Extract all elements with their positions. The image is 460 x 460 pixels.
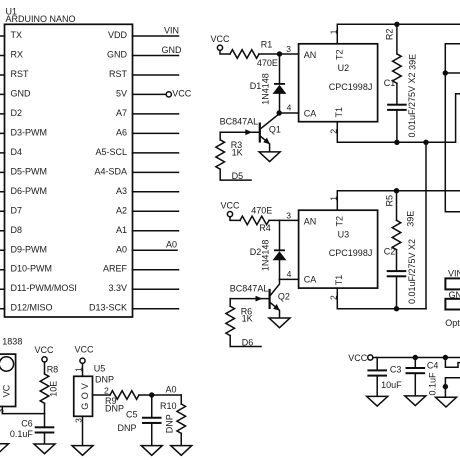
svg-text:T1: T1 xyxy=(334,107,344,118)
svg-text:V: V xyxy=(80,383,90,389)
svg-text:1838: 1838 xyxy=(2,337,22,347)
diode D1 1N4148 xyxy=(273,54,287,113)
svg-text:A4-SDA: A4-SDA xyxy=(94,166,127,176)
svg-text:1N4148: 1N4148 xyxy=(260,73,270,105)
transistor Q2 BC847AL xyxy=(230,279,280,318)
svg-text:3.3V: 3.3V xyxy=(108,283,127,293)
svg-text:VCC: VCC xyxy=(172,88,192,98)
svg-text:A0: A0 xyxy=(116,244,127,254)
svg-text:C4: C4 xyxy=(427,360,439,370)
node dot right edge xyxy=(443,70,448,75)
node dot right jumper xyxy=(443,355,448,360)
svg-text:R10: R10 xyxy=(160,401,177,411)
svg-text:T2: T2 xyxy=(335,216,345,227)
svg-text:D11-PWM/MOSI: D11-PWM/MOSI xyxy=(11,283,77,293)
svg-text:470E: 470E xyxy=(257,58,278,68)
svg-text:39E: 39E xyxy=(405,211,415,227)
svg-text:D10-PWM: D10-PWM xyxy=(11,264,53,274)
svg-text:C5: C5 xyxy=(126,410,138,420)
diode D2 1N4148 xyxy=(273,220,287,279)
svg-text:U5: U5 xyxy=(94,363,106,373)
connector U5 body xyxy=(74,376,93,416)
capacitor C1 xyxy=(387,104,407,143)
svg-text:A1: A1 xyxy=(116,225,127,235)
U3 pin 1 wire (T2) xyxy=(337,191,460,211)
svg-text:A7: A7 xyxy=(116,108,127,118)
svg-text:D7: D7 xyxy=(11,205,23,215)
ground below C5 xyxy=(141,446,162,456)
svg-text:A0: A0 xyxy=(166,240,177,250)
U2 pin 1 wire (T2) xyxy=(337,24,460,44)
Arduino Nano U1 body xyxy=(5,24,133,317)
svg-text:AREF: AREF xyxy=(103,264,128,274)
wire VCC to R4 xyxy=(230,217,240,221)
svg-text:1: 1 xyxy=(328,196,338,201)
U5 pin 2 wire xyxy=(93,394,111,396)
VCC symbol at U5 xyxy=(74,345,94,364)
svg-text:VIN: VIN xyxy=(164,25,179,35)
svg-text:10E: 10E xyxy=(49,381,59,397)
svg-text:VCC: VCC xyxy=(220,200,240,210)
svg-text:C3: C3 xyxy=(390,365,402,375)
node dot R5 top xyxy=(394,188,399,193)
right edge load wiring top xyxy=(445,44,460,212)
SSR U2 body xyxy=(299,44,378,122)
ground below C6 xyxy=(34,444,55,454)
VCC symbol bottom rail xyxy=(348,353,373,363)
resistor R5 xyxy=(392,191,401,270)
VCC symbol at R8 xyxy=(34,345,54,362)
svg-text:1K: 1K xyxy=(232,147,243,157)
svg-text:GND: GND xyxy=(162,45,183,55)
node dot mid rail branch xyxy=(423,140,428,145)
svg-text:ARDUINO NANO: ARDUINO NANO xyxy=(6,14,76,24)
wire shared neutral vertical xyxy=(425,142,427,308)
wire R9 to A0 xyxy=(139,394,181,396)
capacitor C6 xyxy=(35,414,55,444)
capacitor C2 xyxy=(387,270,407,309)
svg-text:BC847AL: BC847AL xyxy=(230,283,269,293)
svg-text:39E: 39E xyxy=(408,54,418,70)
svg-text:DNP: DNP xyxy=(118,423,137,433)
svg-text:3: 3 xyxy=(286,210,291,220)
svg-text:VCC: VCC xyxy=(348,353,368,363)
svg-text:D13-SCK: D13-SCK xyxy=(89,303,127,313)
svg-text:R4: R4 xyxy=(259,223,271,233)
node dot CA xyxy=(277,110,282,115)
node dot right gnd xyxy=(443,384,448,389)
svg-text:C1: C1 xyxy=(384,78,396,88)
svg-text:VCC: VCC xyxy=(34,345,54,355)
resistor R9 xyxy=(110,391,139,400)
svg-text:D6-PWM: D6-PWM xyxy=(11,186,48,196)
svg-text:DNP: DNP xyxy=(95,375,114,385)
svg-text:470E: 470E xyxy=(251,206,272,216)
VCC tap on 5V pin xyxy=(166,88,192,98)
svg-text:1K: 1K xyxy=(242,314,253,324)
svg-text:5V: 5V xyxy=(116,88,127,98)
U1 left pin names xyxy=(11,30,77,313)
svg-text:1N4148: 1N4148 xyxy=(260,240,270,272)
ground below Q1 xyxy=(259,152,280,162)
svg-text:AN: AN xyxy=(304,217,317,227)
capacitor C3 xyxy=(367,358,387,397)
svg-text:RX: RX xyxy=(11,50,24,60)
U5 pin 3 wire to ground xyxy=(82,416,84,445)
wire VCC to R1 xyxy=(220,50,230,54)
svg-text:C2: C2 xyxy=(384,247,396,257)
svg-text:Q1: Q1 xyxy=(269,124,281,134)
transistor Q1 BC847AL xyxy=(220,114,279,152)
svg-text:D3-PWM: D3-PWM xyxy=(11,127,48,137)
resistor R4 xyxy=(240,216,269,225)
ground below C3 xyxy=(367,396,388,406)
VCC symbol at R4 xyxy=(220,200,240,216)
capacitor C4 xyxy=(406,358,426,396)
U3 pin 2 wire (T1) xyxy=(337,288,426,309)
node dot top rail / R2 xyxy=(394,22,399,27)
U2 pin 2 wire (T1) xyxy=(337,94,460,143)
svg-text:C6: C6 xyxy=(21,418,33,428)
IR receiver body xyxy=(0,354,16,406)
svg-text:CA: CA xyxy=(304,108,317,118)
node dot R9/C5 xyxy=(149,392,154,397)
U1 left pin stubs xyxy=(0,36,5,309)
svg-text:TX: TX xyxy=(11,30,23,40)
svg-text:2: 2 xyxy=(328,129,338,134)
svg-text:R5: R5 xyxy=(384,195,394,207)
svg-text:CPC1998J: CPC1998J xyxy=(329,82,373,92)
svg-text:D5-PWM: D5-PWM xyxy=(11,166,48,176)
svg-text:BC847AL: BC847AL xyxy=(220,117,259,127)
svg-text:A5-SCL: A5-SCL xyxy=(95,147,127,157)
right edge jumper wiring xyxy=(445,358,460,398)
wire IR out to R8/C6 xyxy=(2,407,44,414)
svg-text:AN: AN xyxy=(304,50,317,60)
svg-text:DNP: DNP xyxy=(105,403,124,413)
ground below Q2 xyxy=(269,318,290,328)
svg-text:D5: D5 xyxy=(232,171,244,181)
wire R1 to U2 AN pin 3 xyxy=(259,53,299,55)
U1 right pin stubs xyxy=(133,36,179,309)
node dot C4 xyxy=(413,355,418,360)
svg-text:VCC: VCC xyxy=(74,345,94,355)
resistor R1 xyxy=(230,50,259,59)
svg-text:R2: R2 xyxy=(384,29,394,41)
wire VCC to U5 pin 1 xyxy=(82,363,84,376)
svg-text:T2: T2 xyxy=(335,50,345,61)
SSR U3 body xyxy=(299,210,378,288)
U1 right pin names xyxy=(89,30,128,313)
svg-text:2: 2 xyxy=(104,386,109,396)
svg-text:D9-PWM: D9-PWM xyxy=(11,244,48,254)
svg-text:DNP: DNP xyxy=(164,414,174,433)
svg-text:A2: A2 xyxy=(116,205,127,215)
ground partial left edge xyxy=(0,444,9,454)
svg-text:0.01uF/275V X2: 0.01uF/275V X2 xyxy=(407,239,417,304)
svg-text:R1: R1 xyxy=(261,40,273,50)
svg-text:RST: RST xyxy=(11,69,30,79)
svg-text:4: 4 xyxy=(287,103,292,113)
node dot C1 bottom xyxy=(394,140,399,145)
svg-text:3: 3 xyxy=(74,418,84,423)
svg-text:Q2: Q2 xyxy=(278,291,290,301)
svg-text:D6: D6 xyxy=(242,337,254,347)
terminal VIN port xyxy=(445,269,460,290)
svg-text:VIN: VIN xyxy=(448,269,460,279)
wire D2/Q2 to U3 CA pin 4 xyxy=(280,278,299,280)
svg-text:1: 1 xyxy=(328,29,338,34)
svg-text:D8: D8 xyxy=(11,225,23,235)
capacitor C5 xyxy=(142,395,162,446)
svg-text:0.1uF: 0.1uF xyxy=(10,429,34,439)
node dot R1/D1 xyxy=(277,51,282,56)
svg-text:T1: T1 xyxy=(334,275,344,286)
wire R4 to U3 AN pin 3 xyxy=(269,219,299,221)
svg-text:GND: GND xyxy=(11,88,32,98)
resistor R3 xyxy=(216,132,251,180)
wire D1/Q1 to U2 CA pin 4 xyxy=(279,112,298,114)
svg-text:0.01uF/275V X2: 0.01uF/275V X2 xyxy=(407,72,417,137)
svg-text:3: 3 xyxy=(286,44,291,54)
svg-text:R8: R8 xyxy=(47,364,59,374)
svg-text:A0: A0 xyxy=(165,385,176,395)
svg-text:VDD: VDD xyxy=(108,30,128,40)
svg-text:CPC1998J: CPC1998J xyxy=(329,248,373,258)
ground right edge xyxy=(436,397,457,407)
svg-text:D12/MISO: D12/MISO xyxy=(11,303,53,313)
svg-text:A6: A6 xyxy=(116,127,127,137)
svg-text:4: 4 xyxy=(287,269,292,279)
svg-text:D4: D4 xyxy=(11,147,23,157)
svg-text:VC: VC xyxy=(1,384,11,397)
svg-text:D2: D2 xyxy=(11,108,23,118)
ground below R10 xyxy=(171,446,192,456)
svg-text:VCC: VCC xyxy=(210,34,230,44)
resistor R8 xyxy=(40,362,49,414)
svg-text:O: O xyxy=(80,392,90,399)
svg-text:2: 2 xyxy=(328,295,338,300)
svg-text:1: 1 xyxy=(74,367,84,372)
ground below C4 xyxy=(405,396,426,406)
svg-text:10uF: 10uF xyxy=(381,380,402,390)
VCC symbol at R1 xyxy=(210,34,230,50)
terminal GND port xyxy=(445,290,460,310)
svg-text:0.1uF: 0.1uF xyxy=(428,372,438,396)
ground below U5 xyxy=(72,446,93,456)
resistor R2 xyxy=(393,24,402,103)
svg-text:A3: A3 xyxy=(116,186,127,196)
svg-text:U3: U3 xyxy=(338,230,350,240)
svg-text:Optional: Optional xyxy=(445,318,460,328)
wire VCC bottom rail xyxy=(373,357,460,359)
svg-text:GND: GND xyxy=(107,50,128,60)
resistor R10 xyxy=(177,395,186,446)
svg-text:G: G xyxy=(80,403,90,410)
resistor R6 xyxy=(226,299,261,347)
svg-text:RST: RST xyxy=(109,69,128,79)
svg-text:U2: U2 xyxy=(338,63,350,73)
svg-text:CA: CA xyxy=(304,275,317,285)
node dot C2 bottom xyxy=(394,306,399,311)
